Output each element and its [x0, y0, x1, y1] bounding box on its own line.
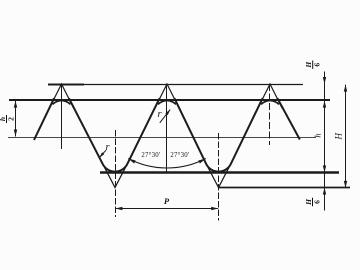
sharp peak 1 (thin theoretical) — [49, 84, 74, 109]
svg-text:P: P — [164, 196, 170, 206]
svg-text:27°30′: 27°30′ — [141, 152, 161, 159]
svg-text:h: h — [312, 133, 322, 137]
centerline peak 3 — [269, 84, 271, 145]
sharp root V 1 (thin theoretical) — [105, 167, 126, 187]
label H/6 bottom fraction (rotated) — [304, 198, 322, 206]
apex line (sharp crest line) — [48, 84, 84, 86]
svg-text:6: 6 — [313, 200, 322, 204]
crest rounding peak 1 — [53, 101, 71, 105]
svg-text:r: r — [105, 142, 110, 153]
sharp root V 2 (thin theoretical) — [208, 167, 229, 187]
label h/2 fraction (rotated) — [0, 115, 16, 123]
centerline valley 1 — [115, 130, 117, 217]
dimension h/2 line — [15, 101, 17, 137]
dimension H line — [345, 85, 347, 188]
dimension line x=324.5 (H/6 top, h, H/6 bottom) — [324, 72, 326, 211]
centerline peak 2 — [166, 84, 168, 172]
root line (truncated) — [100, 171, 339, 174]
centerline peak 1 — [61, 84, 63, 149]
leader r crest — [160, 110, 170, 123]
crest rounding peak 2 — [158, 101, 176, 105]
svg-text:27°30′: 27°30′ — [170, 152, 190, 159]
sharp root line — [219, 187, 351, 189]
svg-text:6: 6 — [313, 63, 322, 67]
sharp peak 2 (thin theoretical) — [155, 84, 180, 109]
crest line — [9, 99, 330, 101]
angle dimension arc — [128, 159, 206, 168]
centerline valley 2 — [218, 133, 220, 221]
pitch line — [8, 137, 316, 139]
svg-text:r: r — [157, 109, 162, 120]
dimension P line — [115, 208, 218, 210]
crest rounding peak 3 — [261, 101, 279, 105]
thread profile flanks — [34, 98, 300, 171]
label H/6 top fraction (rotated) — [304, 60, 322, 68]
svg-text:2: 2 — [7, 117, 16, 121]
leader r root — [99, 150, 106, 158]
svg-text:H: H — [333, 133, 343, 141]
sharp peak 3 (thin theoretical) — [258, 84, 283, 109]
